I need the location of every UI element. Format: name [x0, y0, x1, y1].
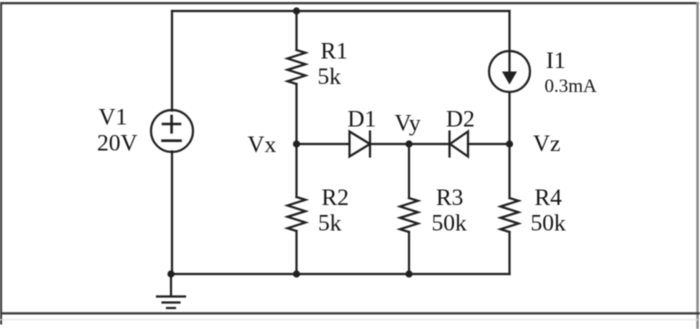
wire Vy to D2 — [409, 143, 450, 145]
svg-text:50k: 50k — [531, 211, 567, 237]
wire R3 bottom — [408, 232, 410, 274]
svg-text:0.3mA: 0.3mA — [545, 76, 598, 97]
wire D1 to node Vy — [370, 143, 409, 145]
svg-text:R2: R2 — [322, 185, 349, 211]
svg-text:I1: I1 — [546, 48, 566, 74]
wire R2 top — [295, 144, 297, 197]
svg-text:R3: R3 — [436, 185, 463, 211]
svg-text:R1: R1 — [321, 39, 348, 65]
wire R2 bottom — [295, 231, 297, 274]
svg-text:Vz: Vz — [533, 131, 560, 157]
svg-text:R4: R4 — [535, 185, 563, 211]
wire R1 bottom to node Vx — [295, 84, 297, 144]
svg-text:Vy: Vy — [395, 111, 421, 137]
wire Vx to D1 — [297, 143, 350, 145]
svg-text:D1: D1 — [348, 107, 377, 133]
resistor R3 — [400, 198, 418, 232]
resistor R4 — [501, 198, 519, 232]
svg-text:V1: V1 — [99, 105, 128, 131]
svg-text:50k: 50k — [432, 211, 468, 237]
wire R4 top — [508, 144, 510, 198]
node junction top rail to R1 — [293, 7, 300, 14]
svg-text:Vx: Vx — [248, 132, 277, 158]
wire bottom rail — [171, 273, 510, 275]
resistor R2 — [288, 197, 306, 231]
node R2 bottom junction — [293, 270, 300, 277]
svg-text:5k: 5k — [318, 64, 342, 90]
wire I1 branch top — [508, 11, 510, 51]
resistor R1 — [288, 50, 306, 84]
diode D1 — [350, 132, 371, 157]
wire V1 branch bottom — [171, 152, 173, 275]
wire R1 top — [295, 11, 297, 50]
wire V1 branch top — [171, 11, 173, 111]
wire R3 top — [408, 144, 410, 198]
node R3 bottom junction — [405, 270, 412, 277]
node ground junction — [167, 270, 174, 277]
wire R4 bottom — [508, 232, 510, 274]
current source I1 — [489, 51, 530, 92]
svg-text:D2: D2 — [446, 106, 475, 132]
svg-text:20V: 20V — [97, 131, 138, 157]
wire D2 to node Vz — [468, 143, 510, 145]
wire top rail — [172, 10, 510, 12]
node Vx — [293, 140, 300, 147]
ground — [157, 274, 185, 308]
diode D2 — [450, 132, 469, 157]
node Vy — [405, 140, 412, 147]
wire I1 bottom to node Vz — [508, 92, 510, 144]
voltage source V1 — [151, 110, 193, 152]
node Vz — [506, 140, 513, 147]
svg-text:5k: 5k — [318, 211, 342, 237]
